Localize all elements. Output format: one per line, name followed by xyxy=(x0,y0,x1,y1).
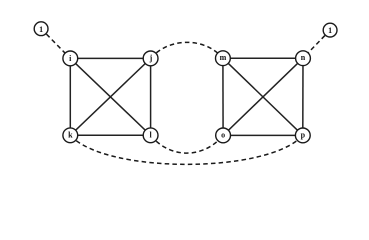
svg-text:j: j xyxy=(149,54,153,63)
svg-text:o: o xyxy=(221,130,225,139)
wire edge j-l xyxy=(150,58,152,135)
node j xyxy=(143,51,158,66)
svg-text:k: k xyxy=(68,131,73,140)
node 1 (right) xyxy=(323,23,337,37)
wire edge i-k xyxy=(69,58,71,135)
node 1 (left) xyxy=(34,22,48,36)
dashed edge j-m arc xyxy=(151,42,223,58)
svg-text:1: 1 xyxy=(39,25,43,34)
wire edge m-n xyxy=(223,57,303,59)
wire edge i-l xyxy=(70,58,150,135)
dashed edge k-p arc xyxy=(70,135,302,164)
wire edge k-l xyxy=(70,134,150,136)
wire edge o-p xyxy=(223,134,303,136)
svg-text:p: p xyxy=(301,131,306,140)
svg-text:1: 1 xyxy=(328,26,332,35)
wire edge n-o xyxy=(223,58,303,135)
dashed edge l-o arc xyxy=(151,135,224,153)
node p xyxy=(295,128,310,143)
wire edge i-j xyxy=(70,57,150,59)
dashed edge 1-i xyxy=(41,29,70,59)
wire edge m-p xyxy=(223,58,303,135)
node o xyxy=(216,128,231,143)
wire edge m-o xyxy=(222,58,224,135)
node i xyxy=(63,51,78,66)
node k xyxy=(63,128,78,143)
svg-text:n: n xyxy=(301,53,306,62)
node l xyxy=(143,128,158,143)
node m xyxy=(216,51,231,66)
wire edge n-p xyxy=(302,58,304,135)
svg-text:m: m xyxy=(220,53,227,62)
dashed edge 1-n xyxy=(303,30,330,58)
wire edge j-k xyxy=(70,58,150,135)
node n xyxy=(296,51,311,66)
